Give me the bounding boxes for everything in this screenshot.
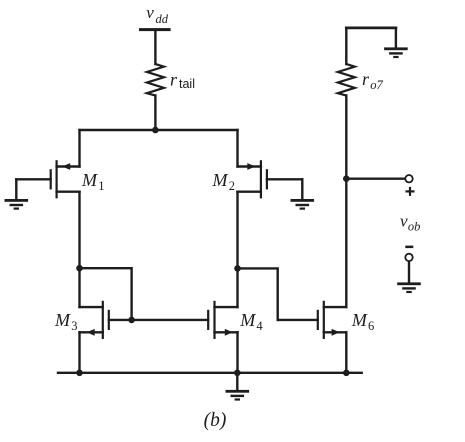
svg-text:M: M: [54, 310, 71, 330]
svg-text:r: r: [362, 69, 370, 89]
svg-text:dd: dd: [156, 12, 169, 26]
svg-text:o7: o7: [370, 78, 383, 92]
svg-text:v: v: [400, 211, 408, 230]
svg-text:ob: ob: [408, 220, 421, 234]
svg-text:M: M: [351, 310, 368, 330]
svg-text:v: v: [146, 3, 154, 22]
svg-text:2: 2: [229, 179, 235, 193]
svg-text:r: r: [170, 70, 178, 90]
svg-text:(b): (b): [204, 410, 227, 431]
svg-text:M: M: [81, 170, 98, 190]
svg-text:3: 3: [71, 319, 77, 333]
svg-text:6: 6: [368, 319, 374, 333]
svg-text:M: M: [239, 310, 256, 330]
svg-text:4: 4: [256, 319, 263, 333]
svg-text:1: 1: [98, 179, 104, 193]
svg-text:M: M: [212, 170, 229, 190]
svg-text:tail: tail: [179, 77, 195, 91]
